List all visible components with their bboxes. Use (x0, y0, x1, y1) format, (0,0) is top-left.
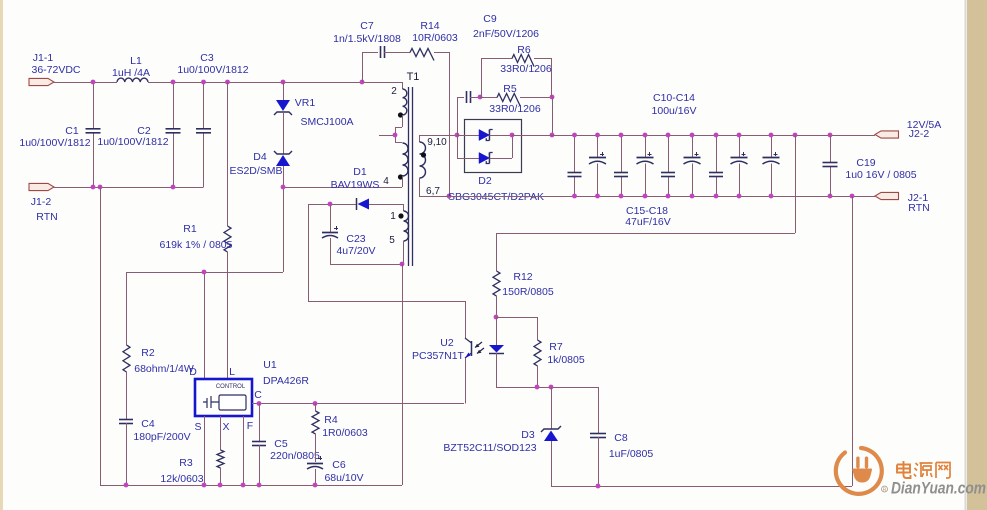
capacitors C10-C14 electrolytic bank (589, 92, 780, 196)
svg-text:L: L (229, 366, 235, 378)
svg-text:180pF/200V: 180pF/200V (133, 431, 190, 443)
wire drain rail to U1 (126, 270, 283, 379)
U1 pin labels (189, 366, 262, 433)
svg-text:1R0/0603: 1R0/0603 (322, 427, 368, 439)
svg-text:1n/1.5kV/1808: 1n/1.5kV/1808 (333, 33, 401, 45)
svg-text:D2: D2 (478, 175, 492, 187)
svg-text:C23: C23 (346, 233, 365, 245)
DianYuan logo circle (836, 448, 882, 494)
LED of optocoupler U2 (489, 317, 504, 387)
svg-text:5: 5 (389, 235, 395, 246)
resistor R3 on X pin (160, 416, 224, 485)
svg-text:U1: U1 (263, 359, 277, 371)
svg-text:68ohm/1/4W: 68ohm/1/4W (134, 363, 194, 375)
svg-text:1: 1 (390, 211, 396, 222)
resistor R5 (478, 83, 555, 115)
wire U1 F pin (243, 416, 245, 485)
resistor R2 (123, 272, 194, 375)
svg-text:ES2D/SMB: ES2D/SMB (229, 165, 282, 177)
diode D2 dual schottky SBG3045CT (448, 120, 553, 204)
svg-text:DianYuan.com: DianYuan.com (891, 480, 986, 498)
svg-text:R: R (883, 487, 887, 493)
diode D4 (229, 151, 292, 187)
transformer T1 core (407, 71, 420, 266)
resistor R6 (481, 44, 552, 97)
svg-text:L1: L1 (130, 55, 142, 67)
transformer T1 secondary winding pins 9,10 / 6,7 (420, 135, 448, 197)
svg-text:R5: R5 (503, 83, 517, 95)
svg-text:1uF/0805: 1uF/0805 (609, 448, 654, 460)
DianYuan logo registered mark (882, 486, 888, 493)
svg-text:D3: D3 (521, 429, 535, 441)
svg-text:C5: C5 (274, 438, 288, 450)
svg-text:VR1: VR1 (295, 97, 316, 109)
svg-text:C: C (254, 389, 262, 401)
svg-text:220n/0805: 220n/0805 (270, 450, 320, 462)
svg-text:4: 4 (383, 176, 389, 187)
wire input return rail (54, 187, 204, 189)
svg-text:CONTROL: CONTROL (216, 384, 246, 390)
svg-text:36-72VDC: 36-72VDC (31, 64, 80, 76)
svg-text:J1-2: J1-2 (31, 196, 52, 208)
svg-text:C8: C8 (614, 432, 628, 444)
wire feedback tap from 12V rail (496, 135, 796, 234)
connector J2-1 (875, 192, 930, 214)
svg-text:J2-2: J2-2 (909, 128, 930, 140)
wire bias to opto collector (308, 204, 465, 302)
svg-text:D: D (189, 366, 197, 378)
svg-text:SMCJ100A: SMCJ100A (300, 116, 353, 128)
capacitor C2 (97, 82, 180, 187)
svg-text:12k/0603: 12k/0603 (160, 473, 203, 485)
wire +12V output rail (521, 135, 875, 137)
svg-text:RTN: RTN (908, 202, 929, 214)
zener diode D3 BZT52C11 (443, 387, 561, 486)
svg-text:1u0/100V/1812: 1u0/100V/1812 (19, 137, 90, 149)
connector J1-2 (29, 183, 58, 223)
svg-text:2nF/50V/1206: 2nF/50V/1206 (473, 28, 539, 40)
wire drain node (281, 185, 402, 272)
node primary tap stub (379, 133, 397, 138)
resistor R1 (160, 82, 233, 394)
capacitor C8 (590, 387, 653, 486)
wire opto bottom rail (496, 385, 598, 390)
svg-text:BZT52C11/SOD123: BZT52C11/SOD123 (443, 442, 536, 454)
svg-text:4u7/20V: 4u7/20V (336, 245, 375, 257)
ground bus primary (100, 483, 402, 488)
DianYuan logo text 电源网 (897, 461, 950, 478)
ground bus secondary (551, 484, 852, 489)
svg-text:RTN: RTN (36, 211, 57, 223)
svg-text:R6: R6 (517, 44, 531, 56)
diode D1 BAV19WS (308, 166, 403, 210)
TVS diode VR1 (274, 82, 354, 154)
capacitor C23 (322, 204, 376, 264)
wire output return rail (419, 196, 875, 198)
svg-text:R1: R1 (183, 223, 197, 235)
svg-text:C10-C14: C10-C14 (653, 92, 695, 104)
svg-text:1k/0805: 1k/0805 (547, 354, 585, 366)
svg-text:J1-1: J1-1 (33, 52, 54, 64)
svg-text:DPA426R: DPA426R (263, 375, 309, 387)
wire primary return drop (100, 187, 102, 485)
wire interwinding snubber drop (447, 52, 452, 198)
svg-text:6,7: 6,7 (426, 186, 440, 197)
svg-text:T1: T1 (407, 71, 420, 83)
op-amp U1 DPA426R controller (195, 359, 309, 416)
wire secondary 9,10 node (419, 97, 459, 158)
svg-text:X: X (222, 421, 229, 433)
svg-text:BAV19WS: BAV19WS (331, 179, 380, 191)
svg-text:150R/0805: 150R/0805 (502, 286, 554, 298)
svg-text:1u0 16V / 0805: 1u0 16V / 0805 (845, 169, 916, 181)
svg-text:47uF/16V: 47uF/16V (625, 216, 671, 228)
svg-text:C19: C19 (856, 157, 875, 169)
wire bias return (402, 264, 404, 485)
svg-text:C1: C1 (65, 125, 79, 137)
svg-text:1uH /4A: 1uH /4A (112, 67, 150, 79)
svg-text:1u0/100V/1812: 1u0/100V/1812 (177, 64, 248, 76)
svg-text:R3: R3 (179, 457, 193, 469)
wire input + rail (54, 82, 402, 84)
wire C23 bottom rail (330, 262, 404, 267)
svg-text:9,10: 9,10 (427, 137, 447, 148)
svg-text:68u/10V: 68u/10V (324, 472, 363, 484)
junction dots output rails (572, 133, 854, 199)
capacitor C3 (177, 52, 248, 187)
svg-text:R14: R14 (420, 20, 439, 32)
svg-text:PC357N1T: PC357N1T (412, 350, 465, 362)
connector J1-1 (29, 52, 81, 86)
svg-text:F: F (247, 420, 253, 432)
svg-text:10R/0603: 10R/0603 (412, 32, 458, 44)
svg-text:C3: C3 (200, 52, 214, 64)
connector J2-2 (875, 119, 941, 140)
svg-text:C7: C7 (360, 20, 374, 32)
svg-text:R12: R12 (513, 271, 532, 283)
inductor L1 (112, 55, 150, 82)
capacitor C19 (823, 135, 917, 196)
transformer T1 primary winding pin 2 to 4 (383, 82, 408, 187)
transformer T1 aux winding pins 1 / 5 (389, 204, 408, 264)
capacitors C15-C18 ceramic bank (568, 135, 724, 228)
optocoupler U2 PC357N1T (412, 301, 484, 404)
DianYuan logo plug (852, 457, 872, 483)
svg-text:C9: C9 (483, 13, 497, 25)
wire U1 S pin (204, 416, 206, 485)
capacitor C6 (307, 456, 364, 485)
capacitor C7 (333, 20, 401, 82)
capacitor C5 (252, 404, 320, 486)
svg-text:U2: U2 (440, 337, 454, 349)
svg-text:D1: D1 (353, 166, 367, 178)
junction dots input rails (91, 80, 365, 190)
svg-text:33R0/1206: 33R0/1206 (500, 63, 552, 75)
svg-text:33R0/1206: 33R0/1206 (489, 103, 541, 115)
wire snubber to output rail (550, 97, 555, 137)
resistor R14 (384, 20, 458, 61)
wire U1 C pin rail (252, 401, 464, 406)
svg-text:S: S (194, 421, 201, 433)
svg-text:2: 2 (391, 86, 397, 97)
svg-text:1u0/100V/1812: 1u0/100V/1812 (97, 136, 168, 148)
svg-text:R7: R7 (549, 341, 563, 353)
svg-text:C4: C4 (141, 418, 155, 430)
resistor R4 (312, 404, 368, 463)
resistor R12 (493, 233, 554, 319)
DianYuan logo text DianYuan.com (891, 480, 986, 498)
capacitor C9 (457, 13, 539, 103)
svg-text:100u/16V: 100u/16V (652, 105, 697, 117)
wire output return to bottom bus (852, 196, 854, 486)
capacitor C1 (19, 82, 100, 187)
svg-text:R2: R2 (141, 347, 155, 359)
svg-text:619k 1% / 0805: 619k 1% / 0805 (160, 239, 233, 251)
svg-text:C6: C6 (332, 459, 346, 471)
capacitor C4 (119, 372, 191, 485)
svg-text:D4: D4 (253, 151, 267, 163)
resistor R7 (496, 317, 585, 387)
svg-text:R4: R4 (324, 414, 338, 426)
